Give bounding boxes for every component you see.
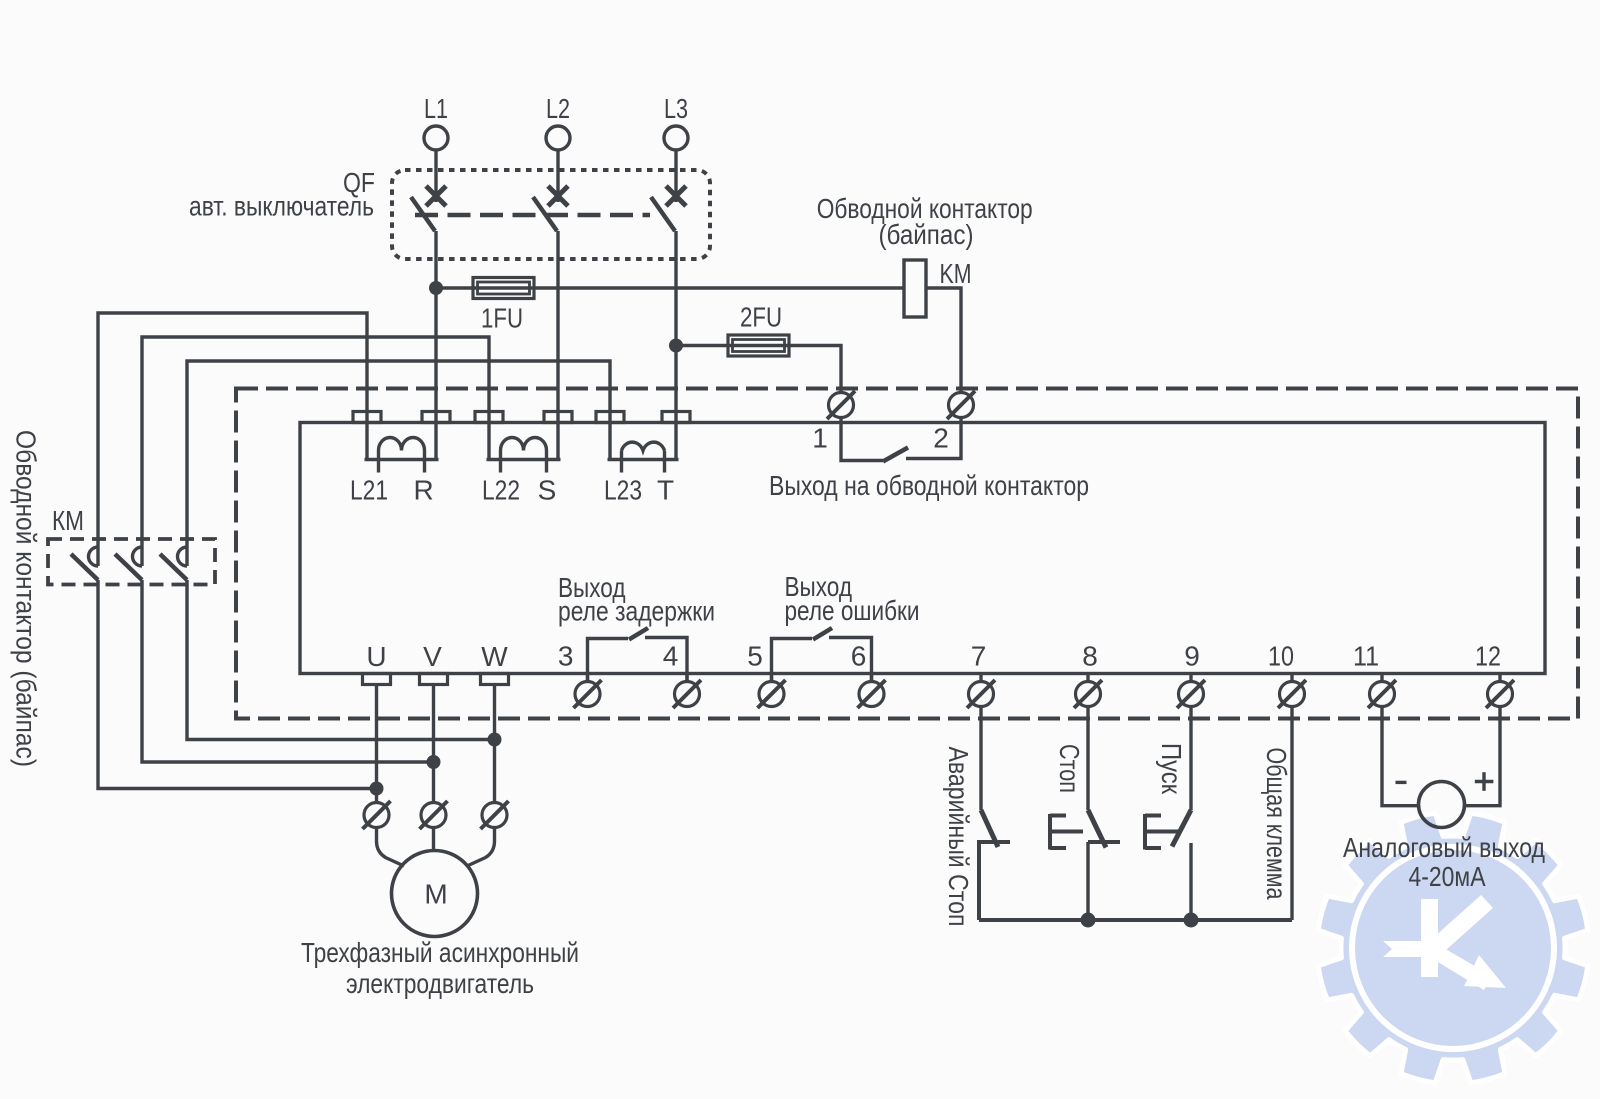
wire coil KM to terminal 2 (926, 288, 961, 393)
svg-text:Аварийный Стоп: Аварийный Стоп (943, 747, 974, 927)
wire terminal 11 to meter (1382, 707, 1419, 806)
logo watermark gear (1318, 813, 1588, 1083)
stop button actuator (1048, 814, 1052, 850)
svg-text:2FU: 2FU (740, 302, 782, 333)
svg-text:V: V (423, 641, 442, 672)
svg-text:S: S (538, 475, 557, 506)
motor terminal (364, 803, 389, 828)
terminal tab U (363, 674, 391, 685)
wire (493, 685, 496, 803)
wire (979, 707, 982, 811)
wire (1189, 843, 1192, 920)
polarity plus (1475, 780, 1494, 783)
QF pole 1 contact (426, 186, 446, 206)
svg-text:L21: L21 (350, 475, 388, 506)
svg-text:5: 5 (747, 641, 763, 672)
svg-text:11: 11 (1353, 641, 1379, 672)
terminal 1 (829, 393, 854, 418)
svg-text:U: U (366, 641, 386, 672)
KM contact pole 2 (133, 547, 143, 566)
bypass wire to L21 (98, 313, 367, 566)
svg-text:4: 4 (663, 641, 679, 672)
emergency stop switch (981, 810, 998, 847)
wire common terminal (1290, 707, 1293, 921)
svg-text:(байпас): (байпас) (879, 219, 974, 250)
terminal tab L21 (353, 412, 381, 423)
svg-text:L23: L23 (604, 475, 642, 506)
wire (1189, 707, 1192, 811)
svg-text:R: R (413, 475, 433, 506)
svg-text:Трехфазный асинхронный: Трехфазный асинхронный (301, 937, 579, 968)
svg-text:1: 1 (812, 423, 828, 454)
wire U to motor (377, 828, 405, 867)
start button contact (1172, 810, 1191, 847)
bypass wire KM to motor U (98, 580, 377, 789)
svg-text:М: М (424, 879, 447, 910)
motor M (392, 851, 478, 937)
wire W to motor (467, 828, 495, 867)
thyristor module L22-S (487, 423, 490, 460)
junction (1184, 913, 1199, 928)
KM contact pole 3 (178, 547, 188, 566)
svg-text:L2: L2 (546, 93, 570, 124)
svg-text:Аналоговый выход: Аналоговый выход (1343, 832, 1545, 863)
terminal 4 (675, 682, 700, 707)
bottom bus wire (979, 918, 1292, 922)
bypass wire KM to motor W (187, 580, 495, 740)
junction (429, 281, 443, 295)
wire (375, 685, 378, 803)
wire (434, 150, 437, 202)
wire (436, 286, 904, 289)
QF pole 2 contact (548, 186, 568, 206)
wire L1 phase to tab R (434, 231, 437, 423)
wire V to motor (432, 828, 435, 851)
relay contact 1-2 (841, 418, 883, 461)
start button actuator (1143, 814, 1147, 850)
relay contact 3-4 (588, 639, 629, 682)
svg-text:10: 10 (1268, 641, 1294, 672)
terminal tab R (422, 412, 450, 423)
svg-text:Выход на обводной контактор: Выход на обводной контактор (769, 470, 1089, 501)
phase input terminal L2 (546, 126, 570, 150)
svg-text:Стоп: Стоп (1054, 744, 1085, 793)
junction (669, 339, 683, 353)
polarity minus (1396, 781, 1407, 784)
thyristor module L21-R (365, 423, 368, 460)
terminal 2 (949, 393, 974, 418)
svg-text:3: 3 (558, 641, 574, 672)
wire (674, 150, 677, 202)
terminal 5 (759, 682, 784, 707)
logo inner ring (1352, 847, 1554, 1049)
svg-text:KM: KM (940, 258, 972, 289)
soft starter outer dashed enclosure (236, 389, 1578, 719)
wire fuse 2FU to terminal 1 (787, 346, 841, 393)
terminal 10 (1280, 682, 1305, 707)
terminal tab S (544, 412, 572, 423)
motor terminal (421, 803, 446, 828)
relay contact 5-6 (772, 639, 813, 682)
fuse 2FU (728, 335, 789, 356)
svg-text:4-20мА: 4-20мА (1409, 861, 1486, 892)
terminal tab V (420, 674, 448, 685)
phase input terminal L3 (664, 126, 688, 150)
junction (1081, 913, 1096, 928)
svg-text:Обводной контактор (байпас): Обводной контактор (байпас) (11, 430, 42, 767)
terminal 3 (575, 682, 600, 707)
terminal tab T (662, 412, 690, 423)
terminal tab L22 (475, 412, 503, 423)
analog output meter (1419, 782, 1465, 828)
svg-text:2: 2 (933, 423, 949, 454)
svg-text:Пуск: Пуск (1156, 743, 1187, 795)
QF linkage bar (415, 213, 650, 218)
wire (1086, 842, 1089, 920)
svg-text:Общая клемма: Общая клемма (1261, 748, 1292, 900)
svg-text:реле ошибки: реле ошибки (785, 595, 920, 626)
contactor coil KM (904, 260, 926, 317)
bypass wire to L22 (142, 337, 489, 566)
svg-text:9: 9 (1184, 641, 1200, 672)
svg-text:реле задержки: реле задержки (558, 596, 715, 627)
wire L3 phase to tab T (674, 231, 677, 423)
QF pole 3 contact (666, 186, 686, 206)
phase input terminal L1 (424, 126, 448, 150)
terminal 12 (1488, 682, 1513, 707)
stop button contact (1088, 810, 1106, 848)
motor terminal (482, 803, 507, 828)
terminal 11 (1370, 682, 1395, 707)
wire (432, 685, 435, 803)
wire (676, 344, 787, 347)
svg-text:L22: L22 (482, 475, 520, 506)
QF pole 3 blade (651, 197, 675, 231)
thyristor module L23-T (608, 423, 611, 460)
bypass contactor KM enclosure (48, 539, 215, 585)
terminal 9 (1179, 682, 1204, 707)
junction (370, 782, 384, 796)
wire (556, 150, 559, 202)
terminal 6 (859, 682, 884, 707)
junction (488, 733, 502, 747)
bypass wire to L23 (187, 361, 610, 566)
svg-text:КМ: КМ (52, 505, 84, 536)
svg-text:T: T (657, 475, 674, 506)
terminal 8 (1076, 682, 1101, 707)
svg-text:6: 6 (851, 641, 867, 672)
wire (1086, 707, 1089, 811)
svg-text:W: W (481, 641, 508, 672)
soft starter inner body (300, 423, 1545, 674)
svg-text:L1: L1 (424, 93, 448, 124)
svg-text:1FU: 1FU (481, 303, 523, 334)
svg-text:7: 7 (971, 641, 987, 672)
circuit breaker QF enclosure (392, 170, 710, 259)
terminal tab W (481, 674, 509, 685)
svg-text:8: 8 (1082, 641, 1098, 672)
svg-text:авт. выключатель: авт. выключатель (189, 191, 374, 222)
terminal 7 (969, 682, 994, 707)
terminal tab L23 (596, 412, 624, 423)
wire terminal 12 to meter (1465, 707, 1501, 806)
svg-text:12: 12 (1475, 641, 1501, 672)
svg-text:L3: L3 (664, 93, 688, 124)
svg-text:электродвигатель: электродвигатель (346, 968, 534, 999)
QF pole 1 blade (411, 197, 435, 231)
junction (427, 755, 441, 769)
logo K-arrow (1383, 895, 1506, 990)
bypass wire KM to motor V (142, 580, 434, 762)
wire L2 phase to tab S (556, 231, 559, 423)
QF pole 2 blade (533, 197, 557, 231)
KM contact pole 1 (89, 547, 99, 566)
fuse 1FU (473, 278, 534, 299)
